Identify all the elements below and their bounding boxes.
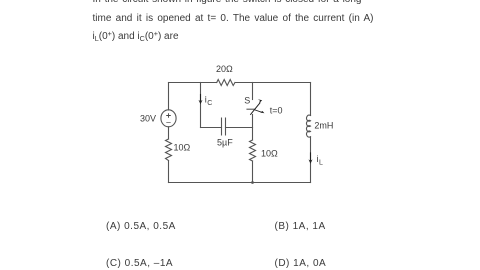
wire: right branch upper [310,83,312,116]
svg-text:30V: 30V [140,113,156,123]
voltage source V1 circle [161,110,176,127]
svg-text:10Ω: 10Ω [174,143,191,153]
svg-text:5µF: 5µF [217,137,233,147]
plus sign inside source [167,114,171,118]
current arrow iC [200,95,202,103]
svg-text:C: C [207,100,212,107]
inductor 2mH coil [307,115,311,137]
resistor 10ohm zigzag (middle) [250,140,256,161]
switch motion arrow t=0 [255,110,262,112]
wire: switch branch lower [252,161,254,183]
wire: capacitor branch vertical [200,83,202,128]
switch S fixed stub [247,108,255,110]
wire: left branch middle [168,127,170,139]
svg-text:L: L [319,160,323,167]
wire: capacitor branch horizontal left [201,127,222,129]
switch S blade with arrowhead [251,103,260,115]
wire: switch branch middle [252,115,254,141]
svg-text:2mH: 2mH [314,121,333,131]
minus sign inside source [167,122,170,124]
question line 2 [93,13,374,25]
wire: top left segment [169,82,217,84]
wire: capacitor branch horizontal right [226,127,253,129]
wire: left branch upper [168,83,170,111]
option C [106,258,173,269]
wire: right branch lower [310,137,312,183]
junction node dot [251,181,254,184]
capacitor 5uF plates [222,118,226,135]
svg-text:10Ω: 10Ω [261,148,278,158]
wire: bottom [169,182,311,184]
question line 3 [93,31,179,43]
resistor 10ohm zigzag (left) [166,139,172,161]
wire: switch branch top stub [252,83,254,100]
question line 1 (cut off at top) [93,0,362,6]
resistor 20ohm zigzag (top) [217,80,235,86]
wire: left branch lower [168,161,170,183]
svg-text:S: S [244,95,250,105]
current arrow iL [310,153,312,162]
option A [106,221,176,232]
svg-text:t=0: t=0 [270,106,283,116]
svg-text:20Ω: 20Ω [216,64,233,74]
wire: top right segment [235,82,311,84]
option D [275,258,327,269]
option B [275,221,326,232]
